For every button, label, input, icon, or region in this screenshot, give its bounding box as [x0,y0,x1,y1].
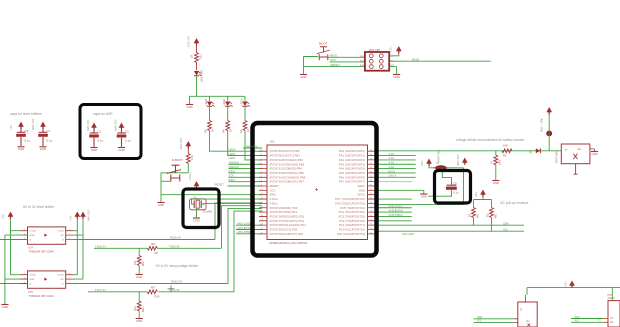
resistor R1 (SDA pullup) [468,208,480,226]
wire: pullup top bar [474,197,492,208]
svg-text:(PCINT24/RXD0) PD0: (PCINT24/RXD0) PD0 [270,206,298,210]
svg-text:I2C pull-up resistors: I2C pull-up resistors [500,201,529,205]
svg-text:A-D0: A-D0 [389,153,395,156]
power symbol AVR-3V3 for reset pullup [186,142,191,149]
svg-text:(PCINT27/TXD1/INT1) PD3: (PCINT27/TXD1/INT1) PD3 [270,219,305,223]
wire: OE rail [73,219,83,280]
wire: SDA/SCL to sensor 2 [571,319,604,323]
wire: corner net PD2 [228,208,262,283]
wire stub AXIS-CLK to MCU PD4 [236,224,262,226]
svg-text:32: 32 [370,185,372,187]
svg-text:BJD0: BJD0 [229,169,236,173]
svg-text:(PCINT13/ICP3/MOSI) PB5: (PCINT13/ICP3/MOSI) PB5 [270,171,305,175]
svg-text:VCC: VCC [270,188,276,192]
svg-text:LED2: LED2 [222,98,226,105]
resistor R-BOOT (reset pullup) [172,148,194,164]
wire and ground right of battery connector [590,149,595,151]
svg-text:RX(C)-3V: RX(C)-3V [171,280,183,284]
wire: LED2 to MCU PB2 [228,131,262,156]
svg-text:SC: SC [610,321,614,324]
svg-text:7: 7 [261,176,262,178]
svg-text:(PCINT11/OC0A/AIN1) PB3: (PCINT11/OC0A/AIN1) PB3 [270,162,305,166]
svg-text:AXIS-STB(A): AXIS-STB(A) [389,214,403,217]
svg-text:SCL: SCL [503,228,509,232]
ground below LED rail [186,105,193,109]
wire: divider row 2 [88,291,234,293]
svg-text:NC: NC [578,147,582,151]
wire stub CHK(A)2 to MCU PB5 [229,168,263,170]
resistor R10 4K7 [147,286,160,299]
svg-text:8: 8 [261,180,262,182]
svg-text:+5V: +5V [9,125,13,130]
svg-text:AREF-SEL: AREF-SEL [437,149,441,163]
svg-text:R11: R11 [133,260,137,265]
IC1 center mark [315,188,318,191]
svg-text:MOSI: MOSI [412,57,419,61]
wire MCU right ADC row 5 [376,168,416,170]
wire MCU right GND pin [376,190,424,193]
svg-text:R4: R4 [222,129,226,133]
wire: LED top rail [190,96,246,104]
svg-text:23: 23 [370,224,372,226]
wire MOSI from ISP [389,60,490,62]
svg-text:AXIS-BOT(A): AXIS-BOT(A) [389,209,404,212]
power symbol battery +12V [547,108,552,115]
wire MCU right ADC row 3 [376,159,416,161]
wire: ISP pin to ground [389,67,396,74]
wire: reset node [161,164,188,203]
svg-text:SCK: SCK [330,58,336,62]
svg-text:3V3: 3V3 [474,192,478,197]
svg-text:R10: R10 [155,295,160,299]
pushbutton BOOT [317,47,330,60]
svg-text:4K7: 4K7 [151,242,156,246]
wire: BOOT button to ISP header [304,57,365,75]
svg-text:BATT-MINI: BATT-MINI [555,150,559,163]
svg-text:PA1 (ADC1/PCINT1): PA1 (ADC1/PCINT1) [339,154,365,158]
svg-text:2: 2 [261,154,262,156]
connector AVR ISP header [360,48,394,71]
highlight box: AVCC cap [435,171,471,204]
svg-text:LED1: LED1 [240,98,244,105]
power symbol AVR-3V3 near ferrite [462,158,467,165]
svg-text:PA5 (ADC5/PCINT5): PA5 (ADC5/PCINT5) [339,171,365,175]
svg-text:SCL: SCL [575,319,581,323]
svg-text:/RESET: /RESET [330,63,340,67]
svg-text:18: 18 [261,224,263,226]
ground right of MCU [420,194,427,198]
wire: LED1 to MCU PB3 [245,131,262,160]
svg-text:C/CA+: C/CA+ [188,171,192,180]
svg-text:PC1 (SDA/PCINT17): PC1 (SDA/PCINT17) [339,223,365,227]
highlight box: caps for AVR [80,105,141,159]
svg-text:1: 1 [261,150,262,152]
wire: LED rail down [196,77,198,97]
net labels SDA/SCL sensor2 [575,315,581,323]
svg-text:LED1-: LED1- [229,156,236,160]
net labels SDA/SCL sensor1 [477,315,483,323]
svg-text:PD7 (OC2A/PCINT31): PD7 (OC2A/PCINT31) [337,232,365,236]
wire SDA bus [376,224,525,226]
wire stub /RESET to MCU [228,185,263,187]
svg-text:PA4 (ADC4/PCINT4): PA4 (ADC4/PCINT4) [339,167,365,171]
svg-text:OE: OE [60,235,64,237]
svg-text:VCCB: VCCB [57,275,64,277]
svg-text:AREF: AREF [358,184,366,188]
wire MCU right ADC row 4 [376,163,416,165]
svg-text:AVR-3V3: AVR-3V3 [87,209,91,221]
svg-text:0.1u: 0.1u [98,139,104,143]
svg-text:25: 25 [370,215,372,217]
svg-text:AVCC: AVCC [357,193,365,197]
svg-text:(PCINT10/INT2/AIN0) PB2: (PCINT10/INT2/AIN0) PB2 [270,158,304,162]
svg-text:10K: 10K [503,143,508,147]
wire: corner net PD3 [234,211,262,292]
sensor IC U1 (pressure) [514,302,537,327]
svg-text:0.1u: 0.1u [453,190,459,194]
svg-text:VC: VC [526,320,530,323]
svg-text:CHG-A: CHG-A [389,175,397,178]
svg-text:1+: 1+ [565,147,568,151]
svg-text:PA3 (ADC3/PCINT3): PA3 (ADC3/PCINT3) [339,162,365,166]
ground inside crystal box [193,218,200,222]
wire: corner net PD1 [222,206,263,249]
svg-text:+5V: +5V [1,214,5,219]
svg-text:R9: R9 [155,251,159,255]
wire stub AXIS-DAT to MCU PD5 [236,229,262,231]
ground for level shifters [1,305,8,309]
svg-text:C7: C7 [47,129,51,133]
svg-text:AVR-3V3: AVR-3V3 [31,118,35,130]
svg-text:27: 27 [370,206,372,208]
svg-text:R1: R1 [468,213,472,217]
svg-text:4K7: 4K7 [494,213,498,218]
svg-text:(PCINT12/OC0B/SS) PB4: (PCINT12/OC0B/SS) PB4 [270,167,303,171]
wire: sensor 1 pin stub [525,295,527,302]
svg-text:BLK + 12V: BLK + 12V [540,118,544,132]
svg-text:28: 28 [370,202,372,204]
wire: crystal ground stub [196,208,198,218]
svg-text:6: 6 [69,273,70,275]
svg-text:(PCINT14/OC3A/MISO) PB6: (PCINT14/OC3A/MISO) PB6 [270,175,306,179]
svg-text:(PCINT25/TXD0) PD1: (PCINT25/TXD0) PD1 [270,210,298,214]
svg-text:16: 16 [261,215,263,217]
wire MCU right ADC row 2 [376,155,416,157]
svg-text:15: 15 [261,211,263,213]
IC4 pin numbers [24,229,70,240]
wire: +5V to ferrite bead [429,166,435,168]
IC1 pin names right column [335,149,365,236]
IC4 level shifter TXB0104 [20,227,74,254]
svg-text:16 MHz: 16 MHz [203,209,213,213]
IC1 pin names left column [270,149,307,236]
wire: AVR-3V3 to MCU VCC [243,147,262,149]
svg-text:31: 31 [370,189,372,191]
wire PC row [376,215,412,217]
svg-text:AVR-3V3: AVR-3V3 [456,154,460,166]
svg-text:0.1u: 0.1u [25,139,31,143]
ground below divider 2 [136,319,143,323]
svg-text:5V to 3V level shifter: 5V to 3V level shifter [23,205,55,209]
svg-text:AXIS-CLK(A): AXIS-CLK(A) [389,205,403,208]
svg-text:21: 21 [370,232,372,234]
svg-text:21D(F): 21D(F) [608,297,616,300]
wire stub AXIS-EN to MCU PD6 [236,233,262,235]
power symbol AVR-3V3 (middle) [81,212,86,219]
power symbol +5V for LED rail [194,39,199,46]
wire: +5V to ISP pin [389,53,398,56]
svg-text:BJD1: BJD1 [229,178,236,182]
svg-text:R-BOOT: R-BOOT [172,158,183,162]
svg-text:AVR-3V3: AVR-3V3 [86,119,90,131]
svg-text:8K2: 8K2 [141,261,145,266]
ground for battery connector [591,152,598,156]
svg-text:LED3-: LED3- [229,148,236,152]
svg-text:BOOT: BOOT [319,42,328,46]
svg-text:A-D4: A-D4 [389,166,395,169]
pushbutton RESET [161,165,181,181]
microcontroller IC1 body [259,145,376,240]
svg-text:C/C+: C/C+ [389,45,393,52]
svg-text:PA7 (ADC7/PCINT7): PA7 (ADC7/PCINT7) [339,180,365,184]
svg-text:1K: 1K [190,55,194,58]
capacitor C2 [114,119,132,147]
svg-text:AXIS-CLK(B): AXIS-CLK(B) [237,221,252,225]
svg-text:PC7 (TOSC2/PCINT23): PC7 (TOSC2/PCINT23) [335,197,365,201]
ground below ISP [393,75,400,79]
wire MCU right AVCC to ferrite [376,168,464,205]
svg-text:GND: GND [30,235,35,237]
resistor R9 4K7 [147,242,158,255]
ferrite bead L1 [433,161,449,170]
svg-text:CAC+5V: CAC+5V [187,36,191,47]
svg-text:(PCINT30/OC2B/ICP) PD6: (PCINT30/OC2B/ICP) PD6 [270,232,304,236]
svg-text:+5V: +5V [69,216,73,221]
svg-text:ATMEGA644xxx-PA-CDIP40: ATMEGA644xxx-PA-CDIP40 [269,241,308,245]
svg-text:(PCINT29/OC1A) PD5: (PCINT29/OC1A) PD5 [270,228,298,232]
wire PC row [376,211,412,213]
svg-text:(PCINT9/CLKO/T1) PB1: (PCINT9/CLKO/T1) PB1 [270,154,301,158]
svg-text:R13: R13 [133,306,137,311]
wire: A input IC5 [0,283,28,285]
wire stub BJD1 to MCU PB7 [229,181,263,183]
svg-text:1K: 1K [229,129,233,132]
power symbol +5V (AREF feed) [427,159,432,166]
IC5 pin numbers [24,273,70,284]
svg-text:9: 9 [261,185,262,187]
svg-text:5: 5 [261,167,262,169]
wire PC row [376,207,412,209]
wire: crystal to XTAL1 [201,202,262,205]
svg-text:BAT-V: BAT-V [389,170,396,173]
svg-text:C1: C1 [98,130,102,134]
svg-text:LED3: LED3 [204,98,208,105]
junction cross marker [168,285,175,292]
svg-text:1K: 1K [246,129,250,132]
svg-text:caps for level shifters: caps for level shifters [10,112,42,116]
svg-text:SCK: SCK [229,174,235,178]
wire stub SCK to MCU PB7 [229,176,263,178]
svg-text:PC6 (TOSC1/PCINT22): PC6 (TOSC1/PCINT22) [335,201,365,205]
svg-text:5: 5 [69,277,70,279]
svg-text:MISO: MISO [330,54,338,58]
net labels on ADC rows [389,153,397,178]
svg-text:AVR-3V3: AVR-3V3 [179,138,183,150]
wire: IC4 B output long line [73,239,215,241]
svg-text:P1: P1 [529,151,533,155]
resistor R2 (SCL pullup) [486,208,498,232]
wire: battery wire up to power arrow [548,114,550,151]
svg-text:A-D2: A-D2 [389,162,395,165]
wire: VCCB rail [73,219,77,275]
svg-text:19: 19 [261,228,263,230]
wire: divider row 1 [94,247,222,249]
wire: MCU GND pin to ground [161,194,262,196]
wire MCU right ADC row 1 (battery monitor net) [376,150,562,152]
IC1 pin numbers [261,150,372,235]
svg-text:6: 6 [261,171,262,173]
svg-text:PA6 (ADC6/PCINT6): PA6 (ADC6/PCINT6) [339,175,365,179]
ground below C1 [90,148,97,152]
svg-text:13: 13 [261,202,263,204]
svg-text:0.1u: 0.1u [47,139,53,143]
svg-text:1K: 1K [211,129,215,132]
svg-text:SCL: SCL [477,319,483,323]
wire: +5V bus to sensors [527,288,620,301]
ground below C9 [17,147,24,151]
svg-text:8K2: 8K2 [141,307,145,312]
svg-text:4K7: 4K7 [476,213,480,218]
svg-text:PC4 (TDO/PCINT20): PC4 (TDO/PCINT20) [339,210,365,214]
highlight box: crystal [183,189,219,228]
svg-text:AVR-3V3: AVR-3V3 [246,144,258,148]
svg-text:PC2 (TCK/PCINT18): PC2 (TCK/PCINT18) [339,219,365,223]
svg-text:26: 26 [370,211,372,213]
wire: LED3 to MCU PB1 [210,131,263,152]
wire: corner net PD0 [215,203,262,240]
resistor R2 [239,107,250,133]
svg-text:34: 34 [370,176,372,178]
power symbol +5V (middle) [75,212,80,219]
ground below C7 [39,147,46,151]
svg-text:AVR-3V3: AVR-3V3 [114,119,118,131]
sensor IC U2 (humidity) [598,301,620,327]
svg-text:CAC+: CAC+ [564,280,568,288]
svg-text:(PCINT28/XCK1/OC1B) PD4: (PCINT28/XCK1/OC1B) PD4 [270,223,307,227]
wire: ferrite to AVCC vertical [447,167,464,169]
ground below reset button [157,203,164,207]
svg-text:TXB0104 06T-CZH6: TXB0104 06T-CZH6 [29,294,55,298]
svg-text:30: 30 [370,193,372,195]
svg-text:ADC-LEFT: ADC-LEFT [402,232,415,236]
svg-text:RX(D)-5V: RX(D)-5V [170,235,182,239]
crystal Y1 [190,196,213,214]
svg-text:(PCINT26/RXD1/INT0) PD2: (PCINT26/RXD1/INT0) PD2 [270,214,305,218]
wire: GND rail left of shifters [5,235,28,304]
svg-text:3: 3 [261,158,262,160]
svg-text:4: 4 [69,282,70,284]
svg-text:PA0 (ADC0/PCINT0): PA0 (ADC0/PCINT0) [339,149,365,153]
svg-text:20: 20 [261,232,263,234]
svg-text:IC1: IC1 [270,140,275,144]
svg-text:1: 1 [24,229,25,231]
svg-text:3: 3 [24,282,25,284]
svg-text:VC: VC [610,317,614,320]
svg-text:2: 2 [24,277,25,279]
connector battery BT1 [555,144,590,174]
svg-text:PC3 (TMS/PCINT19): PC3 (TMS/PCINT19) [339,214,365,218]
svg-text:0.1u: 0.1u [125,139,131,143]
wire MCU right ADC row 7 [376,176,416,178]
svg-text:5: 5 [69,233,70,235]
svg-text:TX(C)-5V: TX(C)-5V [169,288,180,292]
svg-text:VCCA: VCCA [30,230,37,233]
svg-text:PC0 (SCL/PCINT16): PC0 (SCL/PCINT16) [339,228,365,232]
svg-text:R5: R5 [503,153,507,157]
wire: crystal to XTAL2 [192,199,263,204]
resistor R7 (battery divider lower leg) [490,151,502,180]
junction dot on battery wire [546,131,552,137]
capacitor C8 (inside highlight box) [446,181,459,194]
svg-text:33: 33 [370,180,372,182]
resistor R5 10K (battery series) [502,143,512,157]
capacitor C1 [86,119,104,147]
ground below R7 [492,181,499,185]
svg-text:11: 11 [261,193,263,195]
LED LED-PWR [194,63,204,83]
svg-text:39: 39 [370,154,372,156]
wire stub CHK(A)1 to MCU PB4 [229,163,263,165]
svg-text:12: 12 [261,198,263,200]
svg-text:35: 35 [370,171,372,173]
svg-text:SDA: SDA [575,315,581,319]
power symbol above crystal box [194,182,199,189]
svg-text:36: 36 [370,167,372,169]
svg-text:(PCINT15/OC3B/SCK) PB7: (PCINT15/OC3B/SCK) PB7 [270,180,305,184]
svg-text:14: 14 [261,206,263,208]
resistor divider leg row 1 [133,248,145,274]
svg-text:10: 10 [261,189,263,191]
wire SCL bus [376,230,525,232]
wire MISO into ISP [327,56,364,58]
ground below BOOT [300,75,307,79]
svg-text:C9: C9 [25,129,29,133]
LED LED2 [222,96,233,106]
svg-text:TXB0104 06T-CZH6: TXB0104 06T-CZH6 [29,250,55,254]
svg-text:C2: C2 [125,130,129,134]
svg-text:C/C+: C/C+ [420,159,424,166]
resistor R6 [204,107,215,133]
svg-text:CHE(A)2: CHE(A)2 [229,165,240,169]
svg-text:TX(D)-3V: TX(D)-3V [95,244,106,248]
wire MCU right PC rows [376,198,412,200]
svg-text:SDA: SDA [503,221,509,225]
wire: A input IC4 [0,239,28,241]
svg-text:SDA: SDA [477,315,483,319]
wire MCU right PA7 (faint) [376,181,413,183]
svg-text:VCCB: VCCB [57,231,64,233]
svg-text:4: 4 [69,238,70,240]
sensor IC U2 (humidity) label [608,294,616,300]
resistor R4 [222,107,233,133]
svg-text:CHE(A)1: CHE(A)1 [229,161,240,165]
svg-text:10K: 10K [190,155,194,160]
wire SCK into ISP [330,61,365,63]
svg-text:AXIS-STB(B): AXIS-STB(B) [237,230,252,234]
svg-text:29: 29 [370,198,372,200]
svg-text:GND: GND [359,188,365,192]
resistor divider leg row 2 [133,292,145,318]
